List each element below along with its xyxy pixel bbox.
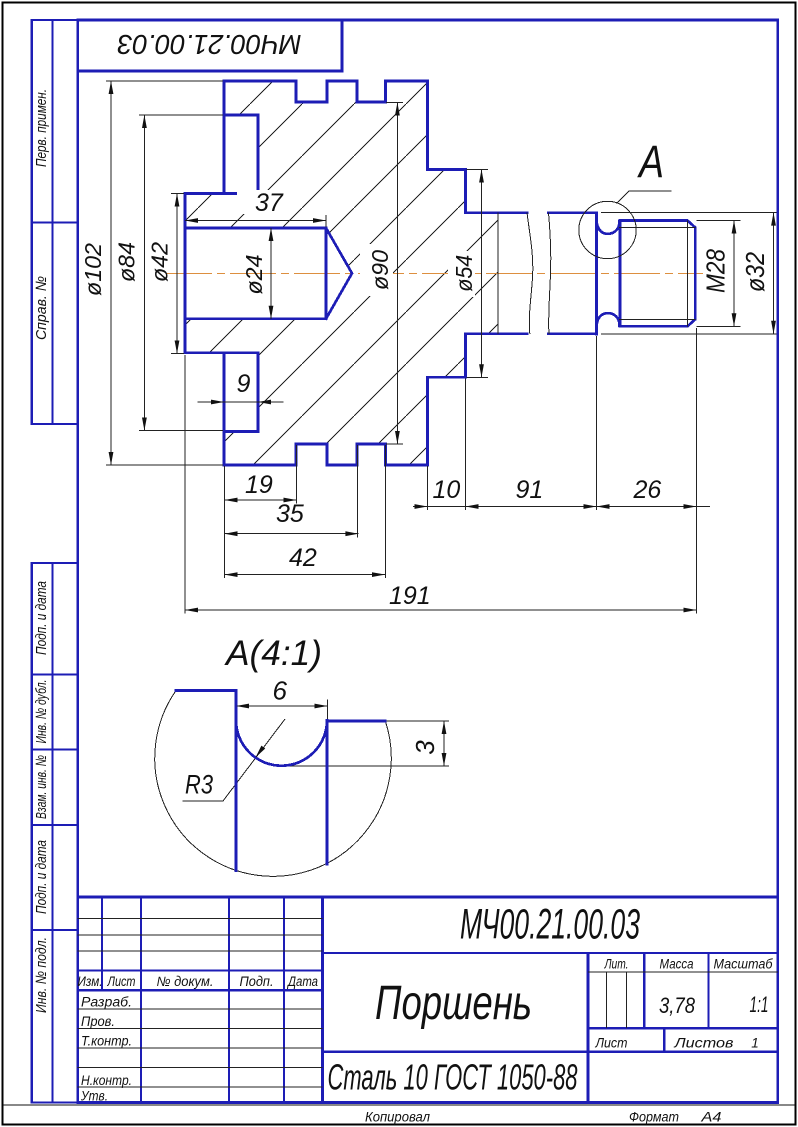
svg-text:Утв.: Утв. <box>80 1089 108 1104</box>
svg-text:МЧ00.21.00.03: МЧ00.21.00.03 <box>117 29 301 60</box>
svg-text:МЧ00.21.00.03: МЧ00.21.00.03 <box>460 901 640 949</box>
svg-text:91: 91 <box>516 476 544 504</box>
svg-text:Масштаб: Масштаб <box>714 957 773 972</box>
svg-text:Поршень: Поршень <box>375 977 532 1030</box>
svg-text:ø102: ø102 <box>80 243 106 296</box>
svg-text:37: 37 <box>255 189 284 217</box>
svg-text:Взам. инв. №: Взам. инв. № <box>33 755 50 819</box>
svg-text:А4: А4 <box>700 1110 721 1125</box>
svg-text:9: 9 <box>237 370 251 398</box>
svg-text:ø24: ø24 <box>241 255 267 295</box>
svg-text:Лит.: Лит. <box>604 957 629 972</box>
svg-text:1:1: 1:1 <box>750 992 769 1017</box>
svg-text:Сталь 10 ГОСТ 1050-88: Сталь 10 ГОСТ 1050-88 <box>328 1057 578 1098</box>
svg-text:Н.контр.: Н.контр. <box>81 1073 132 1088</box>
svg-text:Копировал: Копировал <box>365 1110 430 1125</box>
svg-text:191: 191 <box>389 582 431 610</box>
svg-text:Справ. №: Справ. № <box>33 276 50 340</box>
svg-text:Пров.: Пров. <box>81 1014 115 1029</box>
svg-text:Дата: Дата <box>286 974 318 989</box>
svg-text:ø42: ø42 <box>147 242 173 282</box>
svg-text:Листов: Листов <box>673 1036 733 1051</box>
svg-text:26: 26 <box>633 476 662 504</box>
svg-text:ø54: ø54 <box>451 255 477 292</box>
svg-text:Формат: Формат <box>629 1110 679 1125</box>
svg-text:10: 10 <box>433 476 461 504</box>
svg-text:Подп.: Подп. <box>240 974 274 989</box>
svg-text:Изм.: Изм. <box>78 974 103 989</box>
svg-text:6: 6 <box>273 676 288 706</box>
svg-text:Лист: Лист <box>595 1036 628 1051</box>
svg-text:№ докум.: № докум. <box>157 974 214 989</box>
svg-text:19: 19 <box>245 471 273 499</box>
svg-text:Инв. № дубл.: Инв. № дубл. <box>33 680 50 744</box>
svg-text:ø32: ø32 <box>740 252 770 292</box>
svg-text:Масса: Масса <box>660 957 694 972</box>
svg-text:Т.контр.: Т.контр. <box>81 1034 132 1049</box>
svg-text:Перв. примен.: Перв. примен. <box>33 89 50 167</box>
svg-text:Лист: Лист <box>107 974 136 989</box>
svg-text:3: 3 <box>410 740 440 755</box>
svg-text:A: A <box>637 136 664 187</box>
svg-text:ø84: ø84 <box>114 242 140 282</box>
svg-text:3,78: 3,78 <box>659 993 696 1018</box>
svg-text:1: 1 <box>751 1036 759 1051</box>
svg-text:35: 35 <box>276 500 304 528</box>
svg-text:A(4:1): A(4:1) <box>224 634 322 673</box>
svg-text:R3: R3 <box>185 769 213 799</box>
svg-text:42: 42 <box>289 544 317 572</box>
svg-text:М28: М28 <box>701 249 731 293</box>
svg-text:Подп. и дата: Подп. и дата <box>33 840 50 914</box>
svg-text:Подп. и дата: Подп. и дата <box>33 581 50 655</box>
svg-text:Инв. № подл.: Инв. № подл. <box>33 937 50 1013</box>
svg-text:Разраб.: Разраб. <box>81 995 132 1010</box>
svg-text:ø90: ø90 <box>367 250 393 290</box>
